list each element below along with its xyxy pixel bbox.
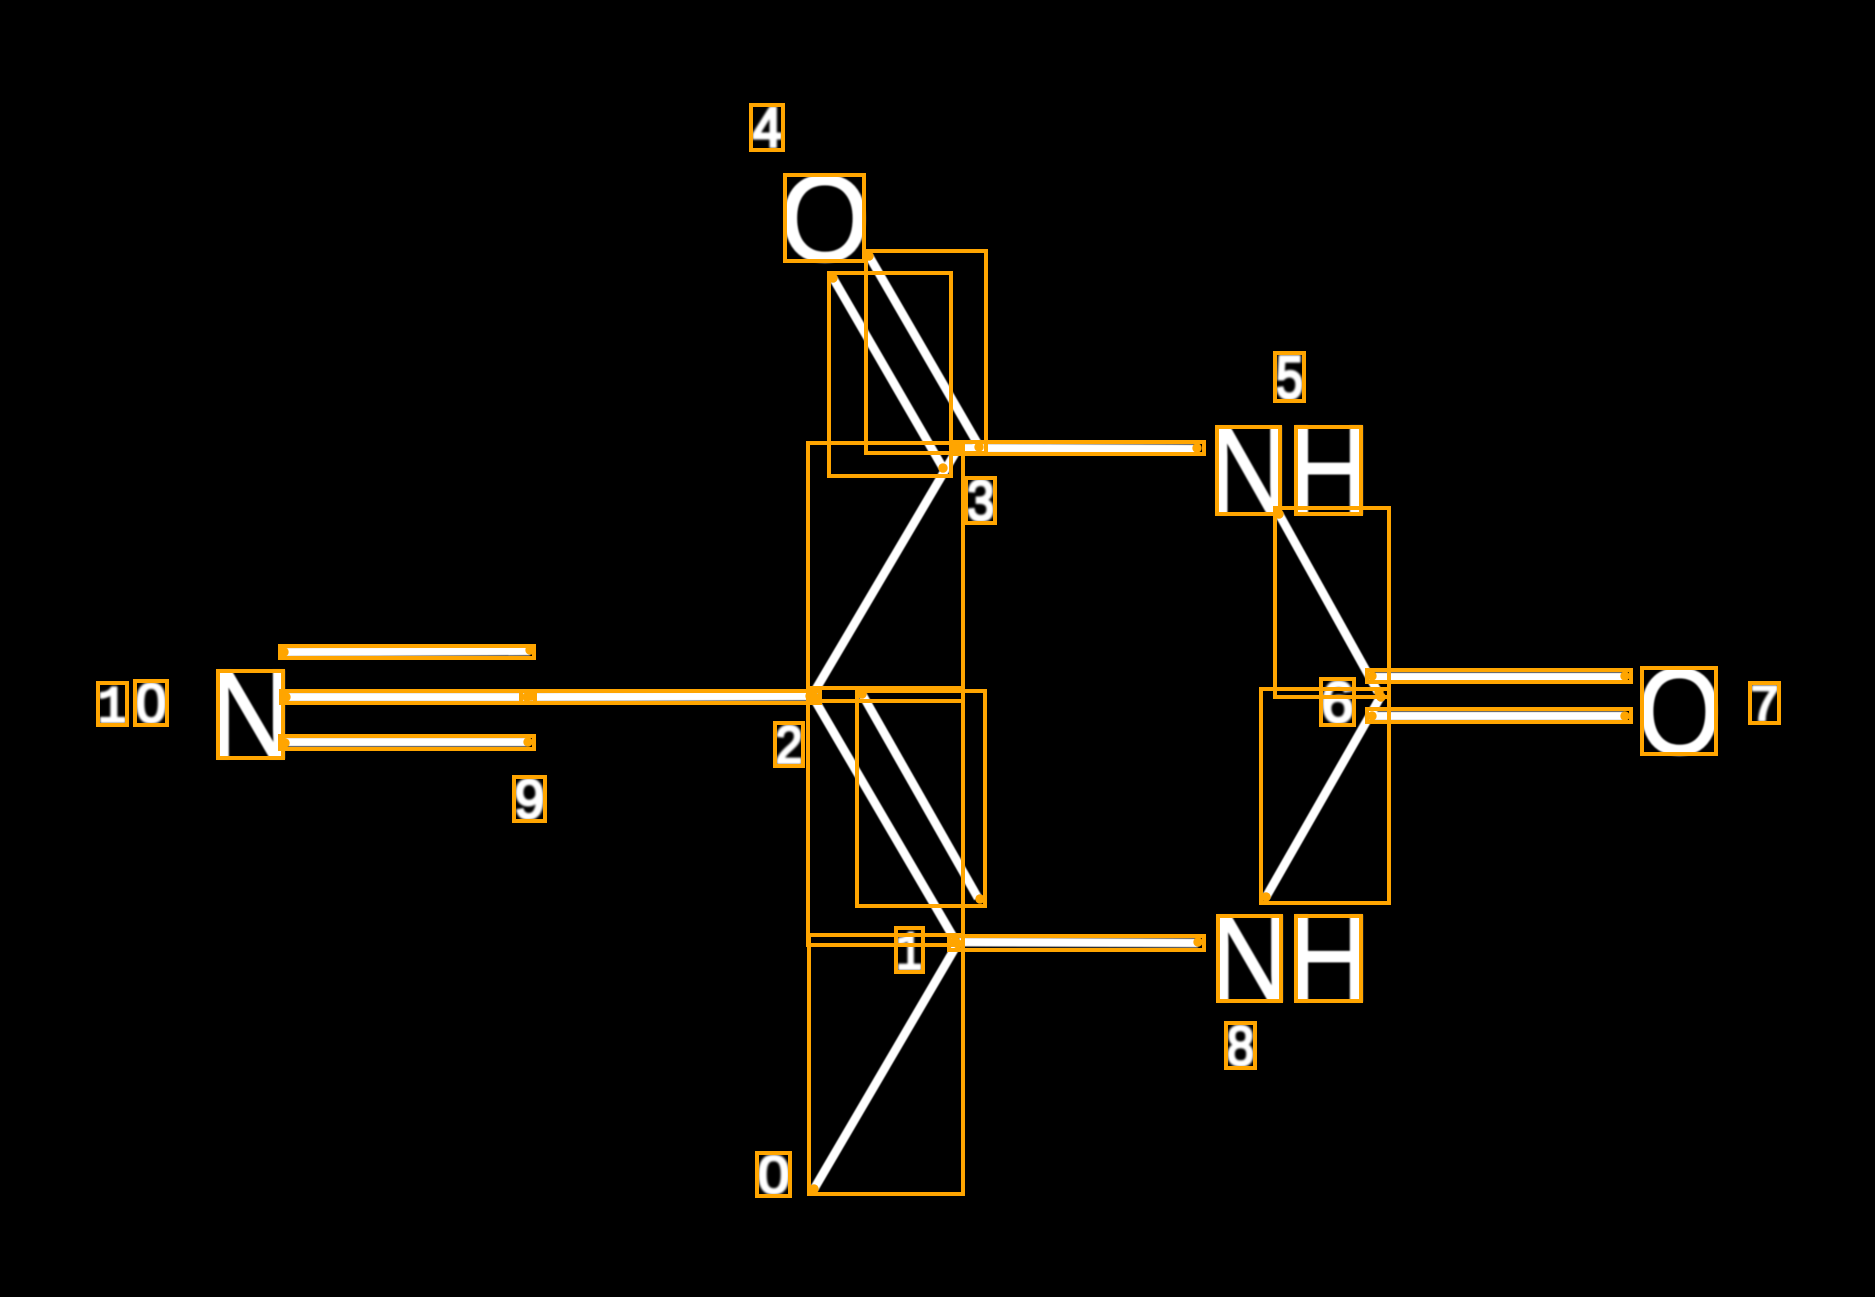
svg-text:N: N xyxy=(1209,891,1291,1028)
svg-text:O: O xyxy=(780,151,870,288)
svg-text:H: H xyxy=(1287,890,1372,1027)
svg-text:N: N xyxy=(1208,400,1290,541)
svg-text:H: H xyxy=(1287,400,1372,541)
svg-text:1: 1 xyxy=(98,679,127,738)
svg-text:O: O xyxy=(1637,643,1722,781)
svg-text:1: 1 xyxy=(896,923,923,986)
svg-text:N: N xyxy=(209,644,294,785)
